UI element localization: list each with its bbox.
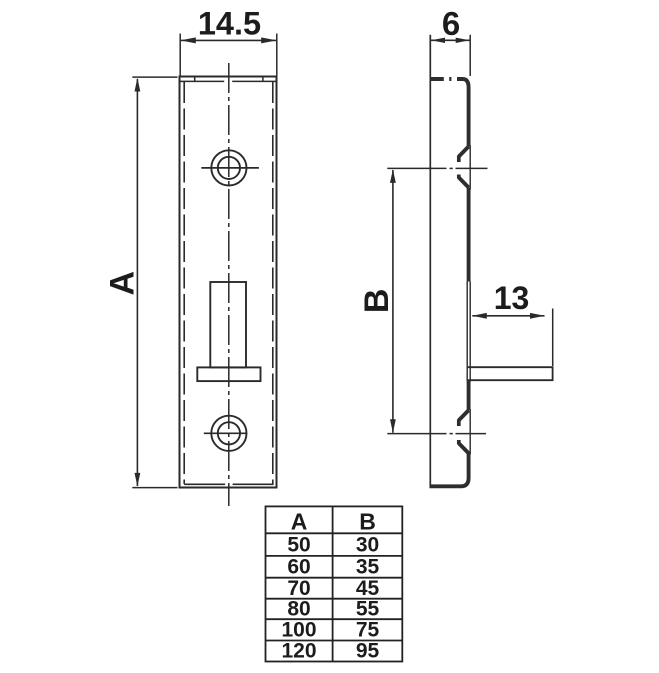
side view right face thick upper	[467, 88, 471, 147]
lower notch bottom diagonal	[459, 443, 469, 453]
svg-text:75: 75	[356, 619, 380, 642]
side view right face thick lower	[430, 452, 469, 486]
dimension 13 extension right	[552, 309, 554, 367]
table row 60/35	[287, 556, 379, 579]
svg-text:55: 55	[356, 598, 380, 621]
lower notch inner wall bottom	[457, 440, 461, 444]
dimension 6 arrow right	[456, 38, 470, 43]
lower notch outer face thin line	[469, 409, 471, 455]
dimension 13 arrow left	[472, 313, 487, 319]
front view bottom lip line	[184, 483, 273, 485]
upper notch inner wall bottom	[457, 175, 461, 179]
table row 50/30	[287, 534, 379, 557]
side view left face line	[429, 35, 431, 488]
dimension A extension line bottom	[132, 487, 177, 489]
svg-text:B: B	[358, 289, 396, 314]
dimension B arrow top	[390, 169, 396, 183]
dimension 14.5 extension line right	[276, 34, 278, 76]
svg-text:14.5: 14.5	[198, 6, 261, 42]
upper notch top diagonal	[459, 147, 469, 157]
bottom hole horizontal centerline	[204, 432, 247, 434]
dimension 13 line	[472, 315, 544, 317]
bottom hole outer circle	[211, 416, 246, 451]
front view hidden line left	[183, 82, 185, 484]
table row 100/75	[281, 619, 379, 642]
lower notch centerline	[387, 433, 486, 435]
dimension 6 arrow left	[431, 38, 445, 43]
dimension 14.5 arrow right	[261, 37, 276, 43]
svg-text:A: A	[104, 271, 142, 296]
top hole inner circle	[218, 157, 240, 179]
dimension A line	[136, 79, 138, 486]
lower notch top diagonal	[459, 410, 469, 420]
svg-text:13: 13	[494, 280, 530, 316]
svg-text:35: 35	[356, 556, 380, 579]
svg-text:100: 100	[281, 619, 316, 642]
upper notch inner wall top	[457, 156, 461, 163]
svg-text:B: B	[359, 509, 376, 535]
top hole horizontal centerline	[201, 167, 259, 169]
dimension B line	[392, 170, 394, 433]
pin rectangle	[468, 367, 553, 380]
upper notch bottom diagonal	[459, 178, 469, 188]
side view top edge thick	[430, 79, 469, 88]
top hole outer circle	[211, 150, 246, 185]
dimension A arrow top	[135, 78, 141, 92]
front view top lip line	[180, 80, 277, 82]
front view outer plate	[180, 77, 277, 488]
table row 120/95	[281, 640, 379, 663]
svg-text:30: 30	[356, 534, 379, 557]
svg-text:95: 95	[356, 640, 380, 663]
dimension 6 line	[431, 39, 470, 41]
front view top lip tick left	[194, 77, 196, 82]
svg-text:6: 6	[442, 5, 460, 42]
dimension 14.5 extension line left	[179, 34, 181, 76]
dimension 6 extension right	[469, 35, 471, 76]
bottom hole inner circle	[218, 422, 240, 444]
dimension 13 arrow right	[530, 313, 545, 319]
latch foot rectangle	[197, 367, 260, 381]
table row 80/55	[287, 598, 379, 621]
svg-text:120: 120	[281, 640, 316, 663]
dimension 14.5 line	[181, 39, 276, 41]
table grid	[266, 506, 403, 661]
svg-text:80: 80	[287, 598, 310, 621]
front view hidden line right	[272, 82, 274, 484]
dimension A arrow bottom	[135, 473, 141, 487]
upper notch outer face thin line	[469, 145, 471, 190]
table row 70/45	[287, 577, 379, 600]
dimension 14.5 arrow left	[181, 37, 196, 43]
svg-text:A: A	[291, 509, 308, 535]
svg-text:60: 60	[287, 556, 310, 579]
svg-text:50: 50	[287, 534, 310, 557]
front view vertical centerline	[228, 63, 230, 506]
dimension A extension line top	[132, 76, 177, 78]
upper notch centerline	[387, 167, 487, 169]
side view right face thin double lines	[467, 282, 470, 382]
latch stem rectangle	[210, 282, 246, 367]
side view right face thick middle	[467, 188, 471, 282]
side view top edge gaps	[444, 77, 457, 82]
lower notch inner wall top	[457, 419, 461, 426]
dimension B arrow bottom	[390, 419, 396, 433]
front view top lip tick right	[262, 77, 264, 82]
side view right face thick below pin	[467, 381, 471, 410]
